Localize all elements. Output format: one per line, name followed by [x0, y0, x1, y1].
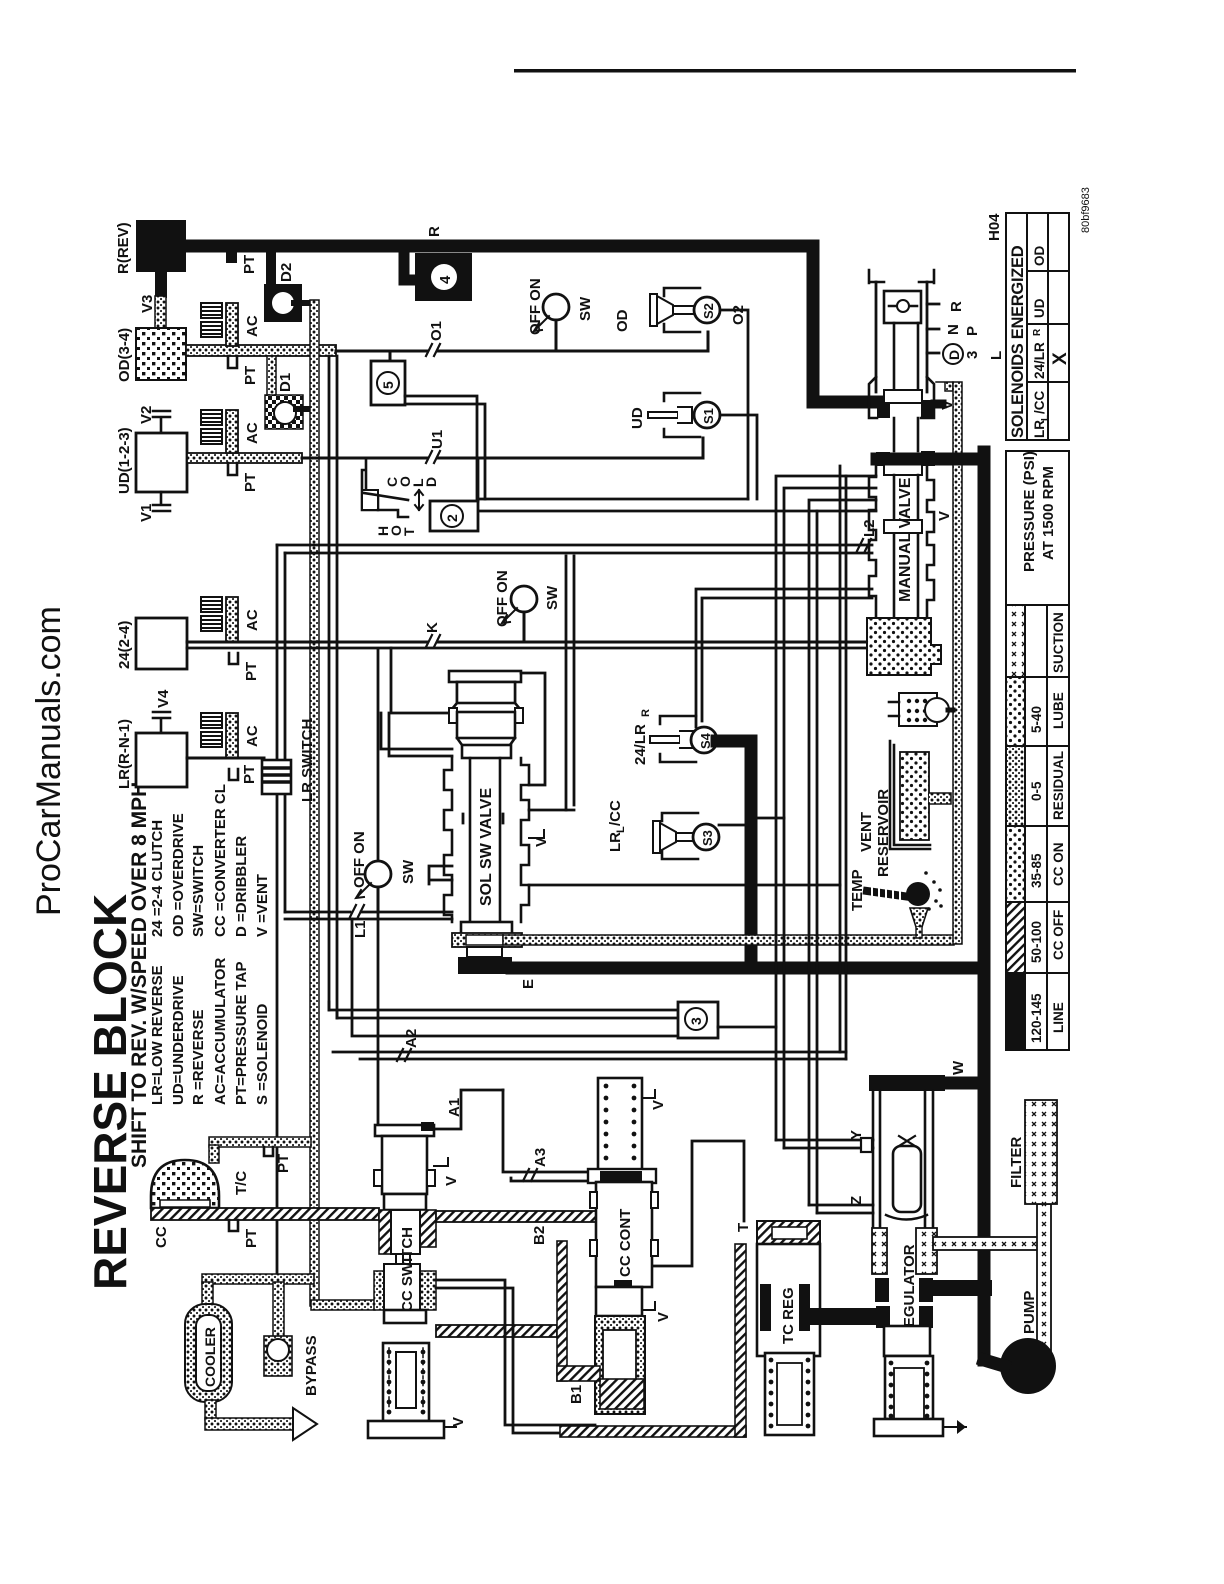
accumulator AC (UD): [201, 410, 261, 453]
svg-text:4: 4: [437, 275, 454, 284]
svg-text:2: 2: [444, 514, 460, 522]
node K tick: [426, 635, 440, 647]
stippled T/C top line with PT: [209, 1137, 311, 1147]
svg-text:5: 5: [380, 381, 396, 389]
svg-text:R(REV): R(REV): [115, 222, 132, 274]
svg-text:LUBE: LUBE: [1051, 692, 1066, 729]
svg-text:X: X: [1050, 352, 1071, 365]
wire bundle line y511: [466, 510, 817, 513]
svg-text:CC =CONVERTER CL: CC =CONVERTER CL: [212, 784, 229, 937]
orifice 5 in box: [389, 351, 392, 361]
svg-text:D2: D2: [278, 263, 295, 282]
wire UD line (U1): [187, 453, 302, 463]
svg-text:UD(1-2-3): UD(1-2-3): [116, 427, 133, 494]
solenoid S3 (LRL/CC): [607, 800, 784, 859]
svg-text:LR: LR: [1032, 420, 1047, 438]
wire 3-box lines: [329, 1002, 678, 1018]
wire W thick: [945, 1077, 984, 1090]
vent V3 stub: [155, 272, 167, 298]
svg-text:BYPASS: BYPASS: [303, 1335, 320, 1396]
torque converter T/C dome: [151, 1160, 219, 1208]
valve CC CONT: [588, 1078, 672, 1414]
svg-text:V: V: [650, 1100, 667, 1110]
wire SOL SW right port to pipe: [529, 884, 840, 887]
svg-text:COOLER: COOLER: [202, 1327, 218, 1387]
svg-text:MANUAL VALVE: MANUAL VALVE: [897, 477, 914, 602]
wire thick from S4: [717, 741, 751, 968]
check ball 2 in box: [430, 501, 478, 531]
svg-text:R: R: [948, 301, 965, 312]
svg-text:UD: UD: [1032, 298, 1047, 318]
svg-text:Z: Z: [848, 1196, 865, 1205]
svg-text:H04: H04: [986, 213, 1003, 241]
pressure tap PT (24): [229, 653, 238, 664]
svg-text:O1: O1: [428, 321, 445, 341]
svg-text:S2: S2: [701, 303, 716, 319]
svg-text:3: 3: [688, 1017, 704, 1025]
svg-text:OD: OD: [614, 309, 631, 332]
cooler outlet with arrow: [205, 1400, 216, 1420]
svg-text:CC: CC: [153, 1226, 170, 1248]
svg-text:T/C: T/C: [233, 1171, 250, 1195]
manual valve lower body: [869, 466, 876, 618]
hatched jacket around CC CONT: [557, 1241, 567, 1381]
svg-text:SHIFT TO REV. W/SPEED OVER 8 M: SHIFT TO REV. W/SPEED OVER 8 MPH: [128, 782, 151, 1168]
svg-text:PT: PT: [241, 255, 258, 274]
black stub near check ball 4: [404, 252, 415, 280]
node L2: [857, 539, 871, 551]
svg-text:V3: V3: [139, 295, 156, 313]
svg-text:A1: A1: [446, 1098, 463, 1117]
accumulator AC (24): [201, 597, 261, 642]
wire right pipe bundle from manual valve: [776, 476, 876, 1148]
svg-text:S1: S1: [701, 408, 716, 424]
thermometer TEMP: [849, 869, 943, 938]
svg-text:R: R: [640, 709, 652, 717]
svg-text:OFF ON: OFF ON: [527, 278, 544, 335]
svg-text:/CC: /CC: [607, 800, 624, 826]
svg-text:LR=LOW REVERSE: LR=LOW REVERSE: [149, 965, 166, 1105]
svg-text:AC=ACCUMULATOR: AC=ACCUMULATOR: [212, 957, 229, 1105]
svg-text:W: W: [950, 1060, 967, 1075]
valve TC REG: [757, 1221, 882, 1435]
svg-text:24(2-4): 24(2-4): [116, 621, 133, 669]
dribbler D1: [267, 356, 276, 398]
svg-text:S =SOLENOID: S =SOLENOID: [254, 1004, 271, 1105]
svg-text:O2: O2: [730, 305, 747, 325]
svg-text:CC CONT: CC CONT: [617, 1209, 634, 1277]
svg-text:PT: PT: [243, 1229, 260, 1248]
vent V on CC switch bottom: [444, 1426, 456, 1428]
svg-text:LR SWITCH: LR SWITCH: [299, 719, 316, 802]
svg-text:SW: SW: [577, 296, 594, 321]
svg-text:R: R: [426, 226, 443, 237]
svg-text:V: V: [450, 1417, 467, 1427]
svg-text:OD: OD: [1032, 245, 1047, 266]
wire 3-box to pipe: [718, 1026, 776, 1029]
suction channel regulator to filter: [933, 1237, 1050, 1250]
svg-text:SOLENOIDS ENERGIZED: SOLENOIDS ENERGIZED: [1009, 245, 1027, 438]
svg-text:V =VENT: V =VENT: [254, 874, 271, 937]
wire left pipe pair down: [277, 545, 285, 1277]
thick link TC REG to regulator: [810, 1308, 882, 1325]
manual valve spool black bands: [869, 377, 934, 418]
svg-text:ProCarManuals.com: ProCarManuals.com: [30, 606, 68, 916]
svg-text:AC: AC: [244, 422, 261, 444]
pressure tap PT (UD): [228, 463, 237, 475]
pressure rows: swatches values names: [1007, 606, 1024, 676]
thermal valve HOT/COLD: [362, 458, 439, 536]
svg-text:PT: PT: [242, 473, 259, 492]
pressure tap PT (LR): [229, 769, 238, 780]
svg-text:/CC: /CC: [1032, 391, 1047, 415]
valve CC SWITCH: [368, 1122, 467, 1438]
svg-text:5-40: 5-40: [1029, 706, 1044, 733]
svg-text:L: L: [988, 351, 1005, 360]
svg-text:B2: B2: [531, 1226, 548, 1245]
wire E thick line: [458, 957, 512, 974]
wire L2 line: [285, 540, 869, 542]
svg-text:A2: A2: [403, 1029, 420, 1048]
node U1 tick: [426, 451, 440, 463]
cooler: [185, 1304, 232, 1402]
svg-text:FILTER: FILTER: [1008, 1136, 1025, 1188]
R(REV) clutch block: [136, 220, 186, 272]
svg-text:V: V: [443, 1176, 460, 1186]
dribbler D2: [266, 252, 276, 286]
solenoid S4 (24/LRR): [632, 709, 717, 765]
svg-text:SW: SW: [400, 859, 417, 884]
wire thick vertical main: [877, 452, 984, 1360]
svg-text:0-5: 0-5: [1029, 781, 1044, 801]
svg-text:V: V: [533, 837, 550, 847]
table SOLENOIDS ENERGIZED: [1006, 213, 1069, 440]
svg-text:SUCTION: SUCTION: [1051, 612, 1066, 673]
switch SW3 (LR): [351, 831, 417, 912]
wire vertical pipe pair from OD line: [329, 356, 337, 1018]
svg-text:P: P: [964, 326, 981, 336]
valve SOL SW VALVE: [444, 671, 840, 957]
svg-text:S3: S3: [700, 830, 715, 846]
pump: [1000, 1338, 1056, 1394]
svg-text:V2: V2: [138, 406, 155, 424]
svg-text:R: R: [1032, 328, 1043, 336]
svg-text:CC OFF: CC OFF: [1051, 910, 1066, 960]
wire from S1 to bundle: [720, 415, 757, 499]
vent V on CC switch top: [434, 1158, 448, 1166]
switch SW1 (OD): [527, 278, 594, 351]
svg-text:RESIDUAL: RESIDUAL: [1051, 751, 1066, 820]
svg-text:L: L: [615, 826, 627, 833]
svg-text:24/LR: 24/LR: [632, 724, 649, 765]
svg-text:80bf9683: 80bf9683: [1080, 187, 1092, 233]
svg-text:V: V: [655, 1312, 672, 1322]
wire node bundle y500: [478, 498, 748, 501]
wire 24 line (K): [187, 641, 867, 644]
24(2-4) clutch block: [136, 618, 187, 669]
valve MANUAL VALVE: [867, 270, 1005, 675]
vent V arrow on SOL SW: [529, 830, 544, 838]
svg-text:TC REG: TC REG: [780, 1287, 797, 1344]
wire R supply thick line: [186, 246, 877, 402]
wire B1 channel: [436, 1280, 595, 1433]
valve REGULATOR: [861, 1075, 966, 1436]
switch SW2 (2-4): [494, 570, 561, 642]
LR switch connector: [262, 719, 316, 802]
svg-text:R =REVERSE: R =REVERSE: [190, 1010, 207, 1105]
bypass valve: [264, 1336, 292, 1376]
svg-text:U1: U1: [429, 430, 446, 449]
vent V1: [153, 492, 170, 511]
pressure tap PT on CC line: [229, 1220, 238, 1231]
wire hatched B2 line: [436, 1211, 596, 1222]
table PRESSURE (PSI) AT 1500 RPM: [1006, 451, 1069, 1050]
wire thick regulator feed: [930, 1280, 984, 1296]
wire from 5 to bundle: [405, 396, 485, 499]
header rule line: [514, 69, 1076, 73]
svg-text:PT: PT: [275, 1154, 292, 1173]
svg-text:N: N: [945, 324, 962, 335]
wire A3: [503, 1090, 596, 1181]
stippled vertical channel (D2 line): [310, 300, 319, 1306]
svg-text:PT=PRESSURE TAP: PT=PRESSURE TAP: [233, 961, 250, 1105]
wire pair into SOL SW left: [391, 648, 452, 713]
wire LR line: [187, 757, 264, 760]
dribbler (vent area): [889, 693, 953, 726]
svg-text:SW: SW: [544, 585, 561, 610]
svg-text:V: V: [936, 511, 953, 521]
wire Y port: [776, 1140, 873, 1148]
svg-text:OFF ON: OFF ON: [351, 831, 368, 888]
node O1 tick: [426, 344, 440, 356]
svg-text:L1: L1: [352, 920, 369, 938]
wire A2 long line: [333, 1052, 846, 1059]
wire loop SOL SW top right: [521, 673, 545, 785]
svg-text:PRESSURE (PSI): PRESSURE (PSI): [1021, 451, 1038, 572]
svg-text:AT 1500 RPM: AT 1500 RPM: [1040, 466, 1057, 560]
svg-text:D1: D1: [277, 373, 294, 392]
svg-text:D: D: [423, 477, 439, 487]
svg-text:E: E: [520, 979, 537, 989]
svg-text:A3: A3: [532, 1148, 549, 1167]
accumulator AC (OD): [201, 303, 261, 346]
LR(R-N-1) clutch block: [136, 733, 187, 787]
svg-text:T: T: [401, 527, 417, 536]
stippled return line to cooler: [202, 1274, 314, 1284]
wire CC hatched line (converter feed): [151, 1208, 379, 1220]
svg-text:B1: B1: [568, 1385, 585, 1404]
svg-text:V4: V4: [155, 689, 172, 708]
svg-text:LR: LR: [607, 832, 624, 852]
svg-text:T: T: [735, 1223, 752, 1232]
check ball 4 in box: [415, 253, 472, 301]
svg-text:OD =OVERDRIVE: OD =OVERDRIVE: [170, 813, 187, 937]
stippled supply block under manual valve: [867, 618, 941, 675]
wire pair into manual valve lower port: [566, 556, 872, 810]
wire O2 from S2: [720, 310, 748, 499]
accumulator AC (LR): [201, 713, 261, 758]
svg-text:AC: AC: [244, 609, 261, 631]
svg-text:SW=SWITCH: SW=SWITCH: [190, 845, 207, 937]
svg-text:VENT: VENT: [858, 812, 875, 852]
svg-text:AC: AC: [244, 725, 261, 747]
OD(3-4) clutch block: [136, 328, 186, 380]
svg-text:50-100: 50-100: [1029, 921, 1044, 963]
UD(1-2-3) clutch block: [136, 433, 187, 492]
svg-text:24 =2-4 CLUTCH: 24 =2-4 CLUTCH: [149, 820, 166, 937]
svg-text:LINE: LINE: [1051, 1002, 1066, 1033]
wire T feed from CC CONT: [652, 1141, 744, 1266]
svg-text:L2: L2: [861, 519, 878, 537]
svg-text:PT: PT: [242, 366, 259, 385]
svg-text:35-85: 35-85: [1029, 853, 1044, 888]
svg-text:120-145: 120-145: [1029, 993, 1044, 1043]
svg-text:L: L: [1040, 415, 1051, 421]
solenoid S2 (OD): [614, 288, 720, 332]
svg-text:PUMP: PUMP: [1021, 1291, 1038, 1334]
svg-text:V1: V1: [138, 504, 155, 522]
svg-text:LR(R-N-1): LR(R-N-1): [116, 719, 133, 789]
svg-text:CC ON: CC ON: [1051, 843, 1066, 887]
svg-text:UD: UD: [629, 407, 646, 429]
stippled channel from manual valve down: [936, 382, 953, 391]
svg-text:K: K: [424, 622, 441, 633]
wire Z port: [809, 1205, 873, 1213]
svg-text:SOL SW VALVE: SOL SW VALVE: [478, 787, 495, 906]
svg-text:OD(3-4): OD(3-4): [116, 328, 133, 382]
svg-text:OFF ON: OFF ON: [494, 570, 511, 627]
solenoid S1 (UD): [629, 393, 720, 437]
wire OD line (O1): [186, 345, 336, 356]
wire hatched lower CC line: [436, 1325, 557, 1337]
vent reservoir: [858, 741, 951, 877]
wire long pair to manual valve: [277, 545, 872, 553]
svg-text:AC: AC: [244, 315, 261, 337]
svg-text:3: 3: [964, 351, 981, 359]
pressure tap PT on R line: [226, 252, 237, 263]
check ball 3 in box: [678, 1002, 718, 1038]
svg-text:24/LR: 24/LR: [1032, 342, 1047, 379]
wire L1 line: [285, 912, 452, 919]
wire A1: [434, 1090, 503, 1129]
vent V2: [153, 411, 170, 433]
svg-text:UD=UNDERDRIVE: UD=UNDERDRIVE: [170, 975, 187, 1105]
stippled line into CC switch: [311, 1300, 375, 1310]
svg-text:PT: PT: [243, 662, 260, 681]
svg-text:D: D: [946, 350, 962, 360]
svg-text:PT: PT: [241, 765, 258, 784]
stippled E channel to reservoir area: [503, 935, 954, 945]
pressure tap PT (OD): [228, 356, 237, 368]
svg-text:D =DRIBBLER: D =DRIBBLER: [233, 836, 250, 937]
svg-text:RESERVOIR: RESERVOIR: [875, 789, 892, 877]
filter: [1025, 1100, 1057, 1204]
svg-text:CC SWITCH: CC SWITCH: [399, 1227, 416, 1312]
